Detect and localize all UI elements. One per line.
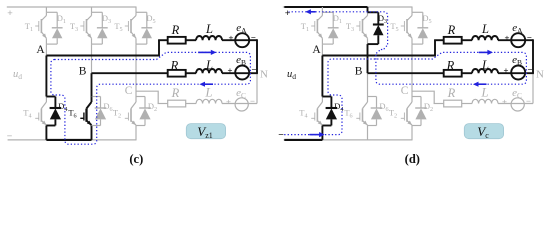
svg-text:−: − (252, 65, 257, 75)
wire: N vertical active (d) (532, 39, 534, 73)
resistor R phase B (d) (444, 70, 462, 77)
svg-text:N: N (536, 69, 544, 81)
wire: bottom stub leg 2 (c) (91, 126, 93, 140)
svg-text:+: + (229, 33, 234, 43)
transistor T2 (c) (125, 97, 136, 126)
current path loop (c) (51, 52, 251, 144)
wire: bottom stub leg 3 (c) (135, 126, 137, 140)
wire: phase A branch left (c) (158, 39, 168, 41)
svg-text:C: C (125, 85, 133, 97)
wire: DC+ top rail (c) (7, 6, 137, 8)
diode D4 (d) (322, 97, 337, 126)
svg-text:+: + (505, 33, 510, 43)
svg-text:R: R (171, 86, 180, 100)
wire: DC- bottom rail (d) (284, 139, 413, 141)
svg-text:L: L (481, 22, 489, 36)
resistor R phase A (d) (444, 37, 462, 44)
wire: phase C branch left (c) (158, 103, 168, 105)
current arrow phase B (d) (478, 83, 487, 85)
svg-text:+: + (226, 97, 231, 107)
svg-text:−: − (528, 65, 533, 75)
wire: active top rail segment (d) (284, 6, 367, 8)
svg-text:−: − (7, 131, 13, 142)
current arrow into D4 (d) (310, 134, 321, 136)
svg-text:L: L (481, 86, 489, 100)
wire: top stub leg 1 (d) (321, 7, 323, 12)
wire: active bottom rail segment (d) (284, 139, 322, 141)
current arrow phase A (c) (198, 51, 212, 53)
inductor L phase C (d) (472, 99, 498, 103)
diode D3 (d) (368, 12, 384, 44)
svg-text:A: A (36, 44, 45, 56)
svg-text:R: R (447, 86, 456, 100)
wire: top stub leg 3 (d) (411, 7, 413, 12)
inductor L phase C (c) (196, 99, 222, 103)
wire: node B horizontal (d) (368, 72, 444, 74)
inductor L phase B (d) (472, 69, 498, 73)
svg-text:−: − (527, 32, 532, 42)
svg-text:−: − (526, 96, 531, 106)
wire: R to L phase B (c) (186, 72, 196, 74)
diode D3 (c) (92, 12, 108, 44)
svg-text:L: L (205, 58, 213, 72)
source eC (c) (235, 98, 248, 111)
svg-text:(d): (d) (405, 152, 420, 166)
current path (d) (284, 12, 526, 135)
wire: leg2 node B to T6 (c) (91, 73, 93, 96)
wire: L to N phase B (c) (222, 72, 258, 74)
wire: leg1 node A to D4 (c) (45, 56, 47, 97)
wire: node C horizontal (d) (412, 91, 434, 103)
transistor T3 (c) (80, 12, 91, 44)
transistor T5 (c) (125, 12, 136, 44)
wire: leg3 mid (d) (411, 44, 413, 96)
svg-text:+: + (504, 65, 509, 75)
svg-text:−: − (278, 129, 284, 140)
transistor T6 (d) (356, 97, 367, 126)
svg-text:B: B (79, 66, 87, 78)
source eB (c) (235, 66, 249, 80)
wire: node A horizontal (d) (322, 40, 435, 55)
source eC (d) (511, 98, 524, 111)
source eA (c) (235, 33, 249, 47)
transistor T1 (d) (311, 12, 322, 44)
svg-text:−: − (251, 32, 256, 42)
svg-text:R: R (447, 23, 456, 37)
wire: DC+ top rail (d) (283, 6, 413, 8)
wire: R to L phase A (d) (462, 39, 472, 41)
wire: L to N phase C (d) (498, 103, 533, 105)
wire: N vertical to phase C (d) (532, 73, 534, 103)
transistor T4 (c) (35, 97, 46, 126)
wire: leg1 mid upper (c) (45, 44, 47, 55)
wire: leg2 D3 to node B (d) (367, 44, 369, 73)
svg-text:N: N (260, 69, 268, 81)
wire: top stub leg 3 (c) (135, 7, 137, 12)
wire: N vertical to phase C (c) (256, 73, 258, 103)
svg-text:R: R (446, 59, 455, 73)
wire: L to N phase A (c) (222, 39, 257, 41)
diode D2 (d) (412, 97, 427, 126)
wire: bottom stub leg 3 (d) (411, 126, 413, 140)
svg-text:+: + (502, 97, 507, 107)
wire: L to N phase C (c) (222, 103, 257, 105)
resistor R phase C (d) (444, 100, 462, 107)
wire: R to L phase A (c) (186, 39, 196, 41)
svg-text:B: B (355, 66, 363, 78)
wire: node A horizontal (c) (46, 40, 159, 55)
wire: DC- bottom rail (c) (8, 139, 137, 141)
inductor L phase A (c) (196, 36, 222, 40)
diode D4 (c) (46, 97, 61, 126)
wire: phase A branch left (d) (434, 39, 444, 41)
svg-text:R: R (171, 23, 180, 37)
wire: leg2 mid upper (c) (91, 44, 93, 73)
transistor T1 (c) (35, 12, 46, 44)
wire: leg2 node B to bottom cell (d) (367, 73, 369, 96)
diode D1 (c) (46, 12, 62, 44)
voltage vector box Vc (d) (464, 124, 503, 139)
wire: leg1 mid upper (d) (321, 44, 323, 55)
wire: top stub leg 2 (c) (91, 7, 93, 12)
resistor R phase A (c) (168, 37, 186, 44)
wire: L to N phase A (d) (498, 39, 533, 41)
diode D6 (c) (92, 97, 107, 126)
wire: bottom stub leg 1 (c) (45, 126, 47, 140)
wire: L to N phase B (d) (498, 72, 534, 74)
svg-text:+: + (285, 8, 291, 19)
inductor L phase B (c) (196, 69, 222, 73)
resistor R phase C (c) (168, 100, 186, 107)
transistor T2 (d) (401, 97, 412, 126)
wire: active bottom rail segment (c) (46, 139, 91, 141)
svg-text:−: − (250, 96, 255, 106)
wire: R to L phase B (d) (462, 72, 472, 74)
current arrow phase B (c) (204, 83, 213, 85)
svg-text:C: C (401, 85, 409, 97)
svg-text:L: L (481, 58, 489, 72)
diode D5 (c) (136, 12, 152, 44)
transistor T3 (d) (356, 12, 367, 44)
wire: R to L phase C (c) (186, 103, 196, 105)
diode D2 (c) (136, 97, 151, 126)
svg-text:A: A (312, 44, 321, 56)
svg-text:+: + (228, 65, 233, 75)
wire: node C horizontal (c) (136, 91, 158, 103)
source eB (d) (511, 66, 525, 80)
diode D5 (d) (412, 12, 428, 44)
svg-text:L: L (205, 22, 213, 36)
svg-text:(c): (c) (129, 152, 143, 166)
current arrow phase A (d) (479, 51, 489, 53)
wire: leg1 node A to D4 (d) (321, 56, 323, 97)
svg-text:+: + (7, 8, 13, 19)
wire: leg3 mid (c) (135, 44, 137, 96)
wire: top stub leg 2 (d) (367, 7, 369, 12)
wire: R to L phase C (d) (462, 103, 472, 105)
inductor L phase A (d) (472, 36, 498, 40)
wire: top stub leg 1 (c) (45, 7, 47, 12)
transistor T5 (d) (401, 12, 412, 44)
wire: node B horizontal (c) (92, 72, 168, 74)
current arrow top rail to source (d) (310, 11, 316, 13)
voltage vector box Vz1 (c) (186, 124, 225, 139)
transistor T4 (d) (311, 97, 322, 126)
wire: phase C branch left (d) (434, 103, 444, 105)
svg-text:R: R (170, 59, 179, 73)
transistor T6 (c) (80, 97, 91, 126)
source eA (d) (511, 33, 525, 47)
diode D1 (d) (322, 12, 338, 44)
wire: N vertical active (c) (256, 39, 258, 73)
wire: bottom stub leg 2 (d) (367, 126, 369, 140)
resistor R phase B (c) (168, 70, 186, 77)
diode D6 (d) (368, 97, 383, 126)
wire: bottom stub leg 1 (d) (321, 126, 323, 140)
svg-text:L: L (205, 86, 213, 100)
